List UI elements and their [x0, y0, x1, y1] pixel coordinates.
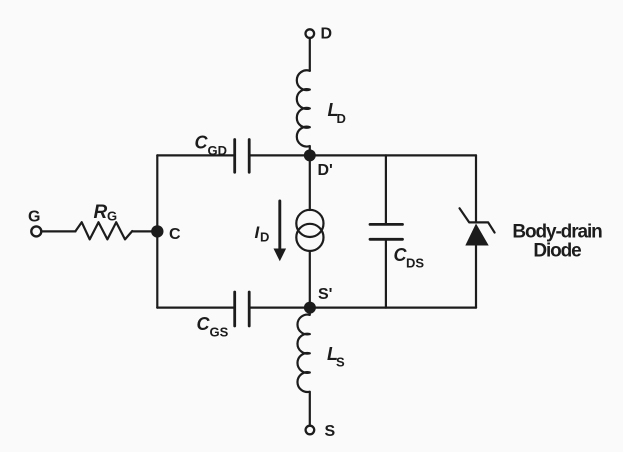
node D'	[304, 149, 316, 161]
body-drain diode	[475, 155, 477, 222]
node S'	[304, 302, 316, 314]
wire left vertical branch	[156, 155, 158, 307]
wire D to L_D	[309, 38, 311, 71]
resistor R_G	[76, 222, 133, 239]
svg-text:S': S'	[318, 286, 332, 303]
current arrow I_D	[278, 201, 281, 249]
svg-text:R: R	[94, 202, 108, 223]
svg-text:GS: GS	[210, 325, 229, 340]
svg-text:D: D	[321, 26, 333, 43]
wire bottom-right: node S' to diode branch	[310, 307, 476, 309]
svg-text:D: D	[337, 111, 346, 126]
wire top-left: node C branch to C_GD	[157, 154, 234, 156]
inductor L_D	[297, 70, 310, 151]
current source I_D	[296, 210, 323, 237]
svg-text:C: C	[197, 314, 211, 334]
wire node D' to current source	[309, 160, 311, 210]
capacitor C_GD	[235, 140, 250, 173]
svg-text:D: D	[260, 230, 269, 245]
wire C_GS to node S'	[249, 307, 310, 309]
node C	[151, 225, 163, 237]
svg-text:C: C	[169, 226, 181, 243]
wire C_GD to node D'	[249, 154, 310, 156]
inductor L_S	[297, 312, 309, 426]
wire current source to node S'	[309, 251, 311, 308]
svg-text:C: C	[195, 133, 209, 153]
svg-text:DS: DS	[406, 256, 424, 271]
wire R_G to node C	[132, 230, 157, 232]
svg-text:G: G	[28, 209, 40, 226]
capacitor C_DS	[385, 155, 387, 224]
wire top-right: node D' to diode branch	[310, 154, 476, 156]
terminal G	[31, 226, 41, 236]
terminal S	[306, 426, 315, 435]
capacitor C_GS	[235, 292, 250, 326]
svg-text:Diode: Diode	[533, 241, 581, 262]
terminal D	[306, 29, 315, 38]
svg-text:G: G	[107, 209, 117, 224]
svg-text:S: S	[325, 423, 336, 440]
wire G to R_G	[42, 230, 76, 232]
svg-text:S: S	[336, 355, 345, 370]
svg-text:Body-drain: Body-drain	[512, 222, 602, 243]
svg-text:D': D'	[318, 162, 333, 179]
svg-text:GD: GD	[208, 143, 228, 158]
wire bottom-left: left branch to C_GS	[157, 307, 234, 309]
